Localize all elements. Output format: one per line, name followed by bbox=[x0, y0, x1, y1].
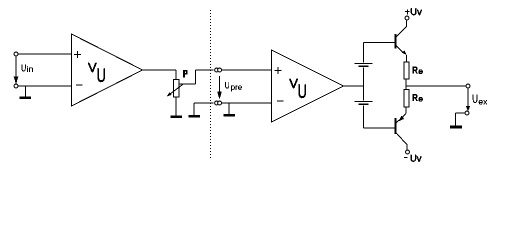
label V_U of U1 bbox=[88, 60, 106, 87]
potentiometer P body bbox=[174, 80, 180, 98]
ground G3 (stage1 lower) bbox=[189, 103, 201, 118]
op-amp U2 plus pin bbox=[275, 67, 282, 74]
terminal +Uv bbox=[405, 16, 409, 20]
transistor Q2 collector bbox=[396, 133, 407, 150]
terminal -Uv bbox=[406, 150, 410, 154]
wire pot bottom bbox=[175, 97, 177, 116]
ground G2 (pot) bbox=[171, 116, 183, 119]
transistor Q2 base bar bbox=[395, 118, 397, 134]
svg-text:U: U bbox=[21, 64, 26, 75]
ground G1 (input) bbox=[20, 86, 32, 99]
label U_in bbox=[21, 64, 33, 75]
U_pre voltage arrow bbox=[217, 76, 221, 99]
label U_ex bbox=[472, 94, 488, 107]
wire base Q1 bbox=[364, 42, 395, 44]
terminal node lower left bbox=[215, 101, 219, 105]
transistor Q2 emitter with arrow bbox=[396, 114, 406, 123]
svg-text:U: U bbox=[298, 82, 307, 103]
terminal node upper left bbox=[215, 68, 219, 72]
op-amp U1 plus pin bbox=[74, 51, 81, 58]
U_ex voltage arrow bbox=[466, 88, 470, 111]
battery B2 (lower bias) bbox=[355, 101, 373, 105]
label Re2 bbox=[412, 93, 423, 104]
wire ground to lower-left terminal bbox=[194, 102, 213, 104]
svg-text:e: e bbox=[418, 93, 423, 103]
battery B1 (upper bias) bbox=[355, 63, 373, 67]
resistor Re2 body bbox=[404, 90, 409, 108]
label -Uv bbox=[404, 156, 407, 158]
terminal input lower bbox=[14, 84, 18, 88]
svg-text:Uv: Uv bbox=[410, 7, 422, 18]
dotted separator line bbox=[210, 10, 212, 160]
wire bias bus middle segment bbox=[363, 68, 365, 101]
wire base Q2 bbox=[364, 127, 395, 129]
wire bias bus lower segment bbox=[363, 106, 365, 129]
wire emitter junction bbox=[405, 79, 407, 90]
wire op-amp U1 output bbox=[143, 70, 177, 80]
terminal U_ex lower bbox=[465, 111, 469, 115]
wire pot wiper to node bbox=[180, 70, 214, 84]
resistor Re1 body bbox=[404, 62, 409, 79]
ground G4 (stage2 lower) bbox=[224, 103, 236, 117]
wire op-amp U2 output to bias bus bbox=[344, 85, 364, 87]
svg-text:e: e bbox=[418, 66, 423, 76]
label +Uv bbox=[405, 9, 410, 14]
label V_U of U2 bbox=[289, 76, 307, 103]
label Re1 bbox=[412, 66, 423, 77]
label P bbox=[183, 70, 188, 77]
wire lower node to op-amp U2 - bbox=[222, 102, 272, 104]
op-amp U1 minus pin bbox=[76, 84, 83, 86]
svg-text:in: in bbox=[27, 64, 34, 74]
wire input - row bbox=[18, 85, 71, 87]
svg-text:pre: pre bbox=[231, 83, 243, 92]
ground G5 (output) bbox=[450, 126, 462, 129]
U_in voltage arrow bbox=[14, 56, 18, 84]
svg-text:Uv: Uv bbox=[410, 154, 422, 165]
label U_pre bbox=[225, 81, 243, 92]
wire bias bus upper segment bbox=[363, 43, 365, 63]
transistor Q1 emitter with arrow bbox=[396, 46, 406, 62]
transistor Q1 base bar bbox=[395, 34, 397, 49]
op-amp U1 triangle bbox=[72, 34, 143, 106]
svg-text:U: U bbox=[97, 66, 106, 87]
terminal U_ex upper bbox=[466, 84, 470, 88]
wire input + row bbox=[18, 53, 71, 55]
svg-text:U: U bbox=[225, 81, 230, 92]
wire output rail bbox=[406, 85, 466, 87]
transistor Q1 collector bbox=[396, 20, 406, 36]
op-amp U2 triangle bbox=[272, 50, 344, 122]
wire below Re2 bbox=[405, 107, 407, 114]
terminal input upper bbox=[14, 52, 18, 56]
svg-text:ex: ex bbox=[478, 97, 488, 107]
terminal node lower right bbox=[218, 101, 222, 105]
potentiometer P wiper arrow bbox=[167, 84, 183, 96]
wire upper node to op-amp U2 + bbox=[222, 69, 272, 71]
svg-text:U: U bbox=[472, 94, 478, 106]
terminal node upper right bbox=[218, 68, 222, 72]
op-amp U2 minus pin bbox=[277, 100, 284, 102]
wire U_ex lower to ground bbox=[456, 113, 465, 126]
